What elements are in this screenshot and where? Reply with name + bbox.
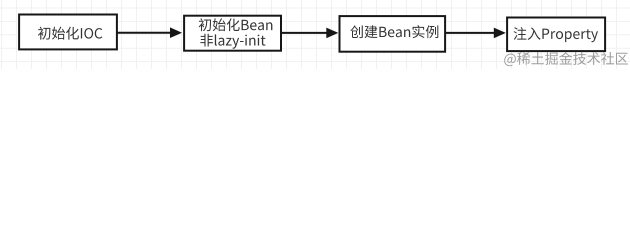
arrow 2 xyxy=(281,28,338,39)
label B4: 注入Property xyxy=(514,27,598,42)
label B3: 创建Bean实例 xyxy=(350,25,438,38)
flow box B3 xyxy=(340,16,446,52)
label B2 line 2: 非lazy-init xyxy=(200,34,265,49)
flow box B2 xyxy=(184,16,281,51)
flow box B4 xyxy=(507,18,605,52)
label B1: 初始化IOC xyxy=(38,27,102,40)
watermark: @稀土掘金技术社区 xyxy=(504,52,628,66)
label B2 line 1: 初始化Bean xyxy=(199,18,273,31)
flow box B1 xyxy=(19,15,117,50)
arrow 3 xyxy=(445,28,506,39)
arrow 1 xyxy=(117,27,182,38)
